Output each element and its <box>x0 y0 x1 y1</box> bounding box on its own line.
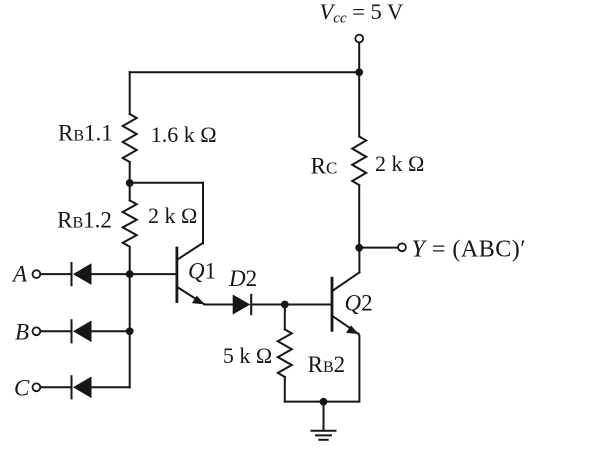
wire node A to Q1 base <box>130 273 176 275</box>
svg-text:2 k Ω: 2 k Ω <box>148 203 197 228</box>
svg-text:RB2: RB2 <box>308 352 346 377</box>
resistor RB1.2 <box>123 200 137 246</box>
node RB2 junction <box>281 301 289 309</box>
wire diode D2 to Q2 base <box>251 304 330 306</box>
wire input bus A to B <box>129 274 131 331</box>
diode DC cathode bar <box>71 376 73 398</box>
svg-text:D2: D2 <box>228 266 257 291</box>
Vcc terminal <box>355 35 363 43</box>
wire diode DA to node A <box>92 273 130 275</box>
wire output Y <box>359 247 398 249</box>
wire Q2 collector vertical <box>358 248 360 272</box>
svg-text:2 k Ω: 2 k Ω <box>375 151 424 176</box>
wire RB1.2 to input node A <box>129 247 131 274</box>
node A junction <box>126 270 134 278</box>
wire RB2 bottom lead <box>284 377 286 402</box>
node B junction <box>126 327 134 335</box>
svg-text:B: B <box>15 319 29 344</box>
wire top rail to RB1.1 <box>129 72 131 114</box>
wire node to Q1 collector horizontal <box>130 182 203 184</box>
node ground junction <box>320 398 328 406</box>
svg-text:RB1.2: RB1.2 <box>57 208 112 233</box>
svg-text:Q2: Q2 <box>345 290 373 315</box>
wire terminal A to diode DA <box>41 273 71 275</box>
diode D2 cathode bar <box>250 295 252 314</box>
diode D2 <box>233 295 251 315</box>
wire input bus B to C <box>129 331 131 387</box>
wire ground stem <box>323 402 325 431</box>
transistor Q2 <box>332 272 359 334</box>
wire RB1.1 to node <box>129 162 131 183</box>
ground <box>312 431 336 440</box>
terminal Y <box>398 243 406 251</box>
node RB1.1/RB1.2 junction <box>126 179 134 187</box>
wire RC bottom lead <box>358 185 360 248</box>
svg-text:Y = (ABC)′: Y = (ABC)′ <box>412 236 526 262</box>
wire emitter return bottom <box>285 401 360 403</box>
resistor RB2 <box>278 329 292 377</box>
terminal C <box>33 383 41 391</box>
diode DA cathode bar <box>71 263 73 285</box>
wire Q1 emitter to diode D2 <box>204 303 232 305</box>
wire Q2 emitter vertical <box>358 334 359 402</box>
diode DB <box>73 321 92 343</box>
wire RC top lead <box>358 72 360 136</box>
diode DB cathode bar <box>71 320 73 342</box>
svg-text:RC: RC <box>311 153 338 178</box>
svg-text:RB1.1: RB1.1 <box>58 121 113 146</box>
wire Vcc terminal to top rail <box>358 43 360 73</box>
svg-text:A: A <box>11 262 28 287</box>
svg-text:5 k Ω: 5 k Ω <box>223 343 272 368</box>
wire RB1.2 top lead <box>129 183 131 200</box>
wire terminal B to diode DB <box>41 330 71 332</box>
wire terminal C to diode DC <box>41 386 71 388</box>
wire diode DC to bus corner <box>92 386 130 388</box>
wire diode DB to node B <box>92 330 130 332</box>
resistor RC <box>352 137 366 186</box>
wire top rail horizontal <box>130 71 360 73</box>
terminal B <box>33 327 41 335</box>
diode DA <box>73 263 92 285</box>
transistor Q1 <box>177 243 205 304</box>
wire RB2 top lead <box>284 305 286 330</box>
resistor RB1.1 <box>123 114 137 162</box>
svg-text:Vcc = 5 V: Vcc = 5 V <box>320 0 404 27</box>
diode DC <box>73 377 92 399</box>
wire Q1 collector vertical <box>202 183 204 244</box>
terminal A <box>33 270 41 278</box>
svg-text:C: C <box>14 376 30 401</box>
svg-text:Q1: Q1 <box>188 259 216 284</box>
svg-text:1.6 k Ω: 1.6 k Ω <box>151 122 217 147</box>
node Y junction <box>355 244 363 252</box>
node top rail junction <box>355 68 363 76</box>
